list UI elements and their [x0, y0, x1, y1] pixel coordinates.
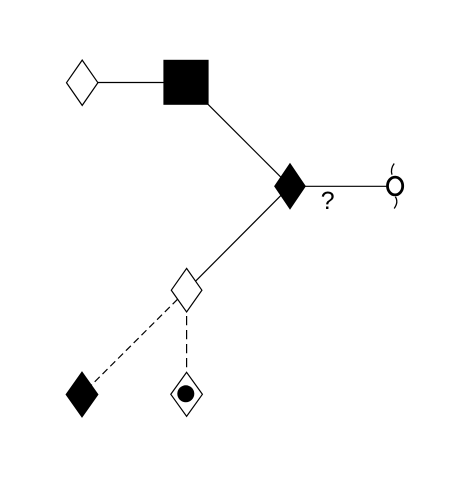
- wire: I-1 to I-2 mating line: [97, 82, 165, 84]
- individual I-2: filled square: [163, 60, 208, 105]
- label: question mark: [322, 192, 334, 209]
- wire: II-1 to III-1 diagonal line: [187, 186, 290, 290]
- wire: dashed III-1 to IV-2 vertical line: [186, 316, 188, 372]
- individual III-1: open diamond: [171, 268, 202, 312]
- wire: II-1 to circle mating line: [305, 185, 387, 187]
- arc mark below circle: [394, 197, 397, 209]
- arc mark above circle: [391, 164, 394, 175]
- wire: I-2 to II-1 diagonal line: [186, 82, 290, 186]
- individual IV-1: filled diamond: [66, 372, 98, 417]
- wire: dashed III-1 to IV-1 diagonal line: [91, 299, 178, 385]
- spouse circle symbol: [388, 177, 403, 195]
- carrier dot inside IV-2: [177, 385, 194, 402]
- individual I-1: open diamond: [67, 60, 98, 105]
- individual II-1: filled diamond: [275, 164, 306, 209]
- individual IV-2: open diamond with carrier dot: [171, 372, 203, 416]
